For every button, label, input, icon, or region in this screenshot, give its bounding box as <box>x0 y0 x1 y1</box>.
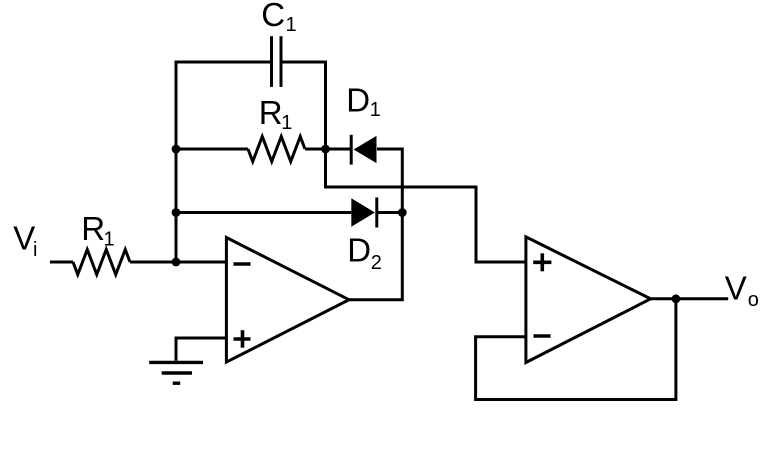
svg-text:V: V <box>725 270 747 307</box>
svg-text:D: D <box>347 232 371 269</box>
svg-text:i: i <box>33 239 37 261</box>
svg-text:R: R <box>81 210 105 247</box>
svg-text:o: o <box>748 289 759 311</box>
svg-text:R: R <box>259 94 283 131</box>
svg-text:D: D <box>346 82 370 119</box>
svg-text:C: C <box>261 0 285 33</box>
svg-text:1: 1 <box>281 112 292 134</box>
svg-text:V: V <box>13 220 35 257</box>
svg-text:1: 1 <box>286 14 297 36</box>
svg-text:2: 2 <box>371 252 382 274</box>
svg-text:1: 1 <box>370 99 381 121</box>
svg-text:1: 1 <box>104 228 115 250</box>
